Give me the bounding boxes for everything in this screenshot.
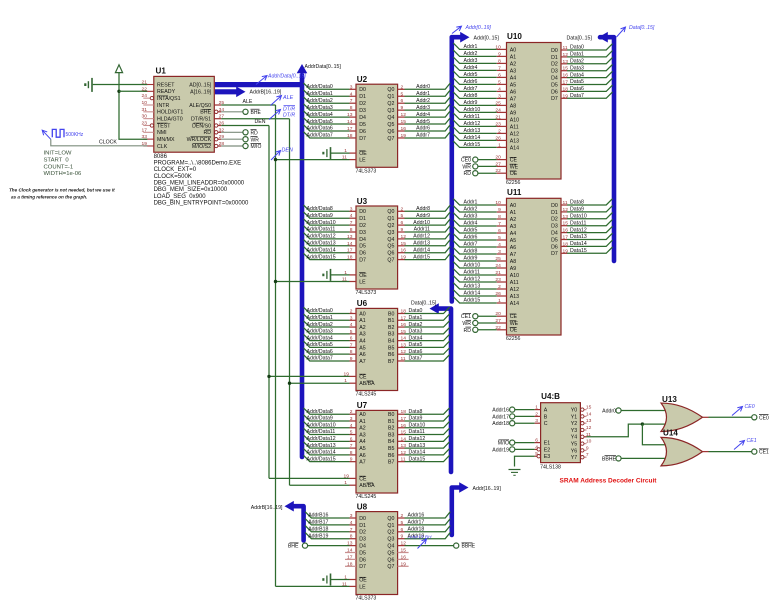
svg-text:3: 3	[350, 84, 353, 90]
svg-text:7: 7	[350, 342, 353, 348]
terminal Addr17 at U4.B	[510, 414, 515, 419]
svg-text:15: 15	[401, 119, 407, 125]
terminal WR at U11.WE	[473, 320, 478, 325]
svg-text:12: 12	[401, 234, 407, 240]
latch U8 74LS373 body	[356, 512, 398, 595]
svg-text:CLOCK=500K: CLOCK=500K	[154, 174, 192, 180]
wire RD to U11.OE	[478, 329, 497, 331]
svg-text:A11: A11	[510, 280, 519, 286]
svg-text:D1: D1	[359, 523, 366, 529]
svg-text:Addr3: Addr3	[416, 105, 430, 111]
svg-text:8: 8	[498, 214, 501, 220]
pin U1.WR/LOCK right	[218, 138, 222, 140]
pin U1.RD right	[218, 131, 222, 133]
transceiver U6 74LS245 body	[356, 308, 398, 390]
svg-text:Q6: Q6	[387, 129, 394, 135]
svg-text:30: 30	[142, 114, 148, 120]
svg-text:Addr/Data1: Addr/Data1	[307, 91, 333, 97]
svg-text:Addr/Data2: Addr/Data2	[307, 98, 333, 104]
svg-text:14: 14	[347, 548, 353, 554]
svg-text:Q5: Q5	[387, 550, 394, 556]
svg-text:5: 5	[350, 329, 353, 335]
svg-text:A1: A1	[359, 318, 366, 324]
svg-text:RD: RD	[251, 131, 259, 137]
wire WR to U10.WE	[478, 165, 497, 167]
svg-text:Addr15: Addr15	[413, 254, 430, 260]
svg-text:17: 17	[347, 126, 353, 132]
wire Addr10 to U10.A9	[453, 106, 497, 112]
junction DEN-U6.CE	[267, 375, 270, 378]
svg-text:5: 5	[498, 235, 501, 241]
svg-text:8: 8	[350, 227, 353, 233]
svg-text:Addr/Data11: Addr/Data11	[307, 227, 336, 233]
bus arrow Data[0..15] mid	[430, 303, 439, 314]
svg-text:AddrB18: AddrB18	[308, 527, 328, 533]
wire ground to U4.E3	[515, 456, 535, 466]
svg-text:D7: D7	[359, 258, 366, 264]
svg-text:74LS138: 74LS138	[540, 465, 561, 471]
svg-text:START 0: START 0	[44, 158, 70, 164]
svg-text:Data12: Data12	[570, 227, 587, 233]
wire U8.Q1 to bus Addr17	[398, 524, 405, 526]
svg-text:2: 2	[350, 409, 353, 415]
wire U13 output to CE0	[703, 416, 709, 418]
svg-text:13: 13	[401, 342, 407, 348]
svg-text:12: 12	[563, 207, 569, 213]
wire BHE to U8.D4	[308, 545, 350, 547]
svg-text:WE: WE	[510, 164, 519, 170]
svg-text:D6: D6	[359, 129, 366, 135]
svg-text:NMI: NMI	[157, 130, 167, 136]
svg-text:B: B	[544, 414, 548, 420]
terminal CE1 at U11.CE	[473, 314, 478, 319]
svg-text:LOAD_SEG 0x900: LOAD_SEG 0x900	[154, 194, 207, 200]
svg-text:Addr1: Addr1	[464, 200, 478, 206]
svg-text:11: 11	[563, 200, 568, 206]
wire U11.D1 to bus Data9	[561, 211, 567, 213]
svg-text:U4:B: U4:B	[541, 392, 560, 401]
svg-text:A2: A2	[359, 325, 366, 331]
wire AddrB17 to U8.D1	[305, 519, 349, 525]
svg-text:D4: D4	[359, 237, 366, 243]
svg-text:D0: D0	[359, 209, 366, 215]
svg-text:22: 22	[495, 168, 501, 174]
svg-text:SRAM Address Decoder Circuit: SRAM Address Decoder Circuit	[560, 478, 658, 485]
svg-text:B7: B7	[388, 460, 395, 466]
svg-text:17: 17	[401, 416, 407, 422]
svg-text:16: 16	[401, 554, 407, 560]
svg-text:3: 3	[498, 249, 501, 255]
svg-text:Y0: Y0	[571, 408, 578, 414]
wire Addr/Data6 to U6.A6	[304, 348, 350, 354]
svg-text:6: 6	[401, 98, 404, 104]
svg-text:2: 2	[401, 84, 404, 90]
terminal RD at U10.OE	[473, 171, 478, 176]
svg-text:6: 6	[350, 336, 353, 342]
wire Addr14 to U11.A13	[453, 290, 497, 296]
svg-text:Addr/Data7: Addr/Data7	[307, 133, 333, 139]
svg-text:D6: D6	[359, 557, 366, 563]
wire Addr/Data11 to U7.A3	[304, 428, 350, 434]
svg-text:AddrB19: AddrB19	[308, 533, 328, 539]
wire U10.D5 to bus Data5	[561, 84, 567, 86]
svg-text:Data6: Data6	[409, 349, 423, 355]
wire U3.Q7 to bus Addr15	[398, 259, 405, 261]
svg-text:D3: D3	[551, 224, 558, 230]
svg-text:Addr13: Addr13	[464, 128, 481, 134]
svg-text:74LS373: 74LS373	[356, 290, 377, 296]
svg-text:16: 16	[401, 248, 407, 254]
svg-text:OE: OE	[359, 273, 367, 279]
svg-text:TEST: TEST	[157, 123, 171, 129]
bus arrow AddrData top	[297, 64, 308, 73]
svg-text:13: 13	[347, 234, 353, 240]
wire Addr11 to U11.A10	[453, 269, 497, 275]
svg-text:A3: A3	[359, 432, 366, 438]
svg-text:A5: A5	[359, 345, 366, 351]
svg-text:AddrB[16..19]: AddrB[16..19]	[250, 89, 282, 95]
pin U1.HOLD/GT1 (31) left	[143, 111, 154, 113]
svg-text:D0: D0	[551, 48, 558, 54]
wire Addr/Data0 to U6.A0	[304, 307, 350, 313]
junction VCC-READY	[117, 90, 120, 93]
svg-text:Data7: Data7	[409, 356, 423, 362]
ground at U3.OE	[330, 269, 332, 281]
svg-text:Addr6: Addr6	[464, 235, 478, 241]
svg-text:RD: RD	[204, 130, 212, 136]
svg-text:4: 4	[498, 86, 501, 92]
wire U11.D6 to bus Data14	[561, 245, 567, 247]
svg-text:Addr15: Addr15	[464, 298, 481, 304]
svg-text:5: 5	[498, 79, 501, 85]
wire Addr5 to U10.A4	[453, 71, 497, 77]
svg-text:DBG_BIN_ENTRYPOINT=0x00000: DBG_BIN_ENTRYPOINT=0x00000	[154, 200, 249, 206]
svg-text:Data1: Data1	[409, 315, 423, 321]
svg-text:Data0: Data0	[409, 308, 423, 314]
svg-text:WR: WR	[462, 164, 471, 170]
svg-text:D3: D3	[359, 108, 366, 114]
svg-text:4: 4	[350, 213, 353, 219]
svg-text:A0: A0	[359, 412, 366, 418]
svg-text:RD: RD	[464, 328, 472, 334]
svg-text:B2: B2	[388, 325, 395, 331]
wire Addr/Data4 to U2.D4	[304, 111, 350, 117]
svg-text:D6: D6	[359, 251, 366, 257]
svg-text:U2: U2	[357, 75, 368, 84]
svg-text:Addr10: Addr10	[413, 220, 430, 226]
pin U8.D7 unconnected	[345, 565, 356, 567]
svg-text:10: 10	[495, 44, 501, 50]
wire U14 output to CE1	[703, 451, 709, 453]
wire Addr/Data1 to U2.D1	[304, 90, 350, 96]
svg-text:Data14: Data14	[409, 450, 426, 456]
svg-text:C: C	[544, 421, 548, 427]
wire U10.D7 to bus Data7	[561, 97, 567, 99]
svg-text:Q3: Q3	[387, 108, 394, 114]
svg-text:A7: A7	[510, 96, 517, 102]
svg-text:13: 13	[586, 418, 592, 424]
wire Addr/Data0 to U2.D0	[304, 83, 350, 89]
svg-text:23: 23	[142, 120, 148, 126]
terminal BHE	[243, 109, 248, 114]
svg-text:16: 16	[401, 423, 407, 429]
svg-text:8: 8	[498, 58, 501, 64]
svg-text:15: 15	[401, 241, 407, 247]
svg-text:AB/BA: AB/BA	[359, 483, 375, 489]
wire Addr11 to U10.A10	[453, 113, 497, 119]
wire U10.D0 to bus Data0	[561, 49, 567, 51]
svg-text:Y3: Y3	[571, 428, 578, 434]
wire Addr/Data7 to U2.D7	[304, 132, 350, 138]
svg-text:Addr14: Addr14	[464, 291, 481, 297]
svg-text:12: 12	[401, 112, 407, 118]
svg-text:13: 13	[563, 214, 569, 220]
svg-text:Addr[0..15]: Addr[0..15]	[474, 36, 500, 42]
bus AddrB[16..19] into U8	[291, 506, 304, 540]
svg-text:A9: A9	[510, 110, 517, 116]
svg-text:11: 11	[401, 457, 406, 463]
svg-text:B7: B7	[388, 359, 395, 365]
wire DEN vertical	[268, 126, 270, 479]
svg-text:27: 27	[495, 318, 501, 324]
terminal WR at U10.WE	[473, 164, 478, 169]
svg-text:Data3: Data3	[570, 65, 584, 71]
terminal WR	[243, 137, 248, 142]
svg-text:Addr/Data15: Addr/Data15	[307, 254, 336, 260]
svg-text:AD[0..15]: AD[0..15]	[189, 83, 211, 89]
wire U11.D4 to bus Data12	[561, 232, 567, 234]
pin U8.Q6 unconnected	[398, 558, 409, 560]
svg-text:6: 6	[498, 228, 501, 234]
wire Addr/Data3 to U2.D3	[304, 104, 350, 110]
wire U8.Q4 to BBHE terminal	[398, 545, 405, 547]
svg-text:D1: D1	[551, 210, 558, 216]
svg-text:9: 9	[498, 51, 501, 57]
svg-text:9: 9	[401, 534, 404, 540]
svg-text:17: 17	[347, 554, 353, 560]
wire M/IO to terminal	[221, 145, 243, 147]
svg-text:Addr7: Addr7	[464, 86, 478, 92]
svg-text:17: 17	[401, 315, 407, 321]
svg-text:D7: D7	[551, 96, 558, 102]
svg-text:74LS373: 74LS373	[356, 168, 377, 174]
svg-text:Data15: Data15	[409, 456, 426, 462]
sram U11 62256 body	[507, 198, 562, 335]
svg-text:18: 18	[563, 241, 569, 247]
svg-text:7: 7	[586, 452, 589, 458]
wire DEN to U7.CE	[269, 477, 350, 479]
svg-text:Addr[0..19]: Addr[0..19]	[465, 25, 492, 31]
pin U1.ALE/QS0 right	[214, 104, 221, 106]
wire U3.Q3 to bus Addr11	[398, 231, 405, 233]
svg-text:A9: A9	[510, 266, 517, 272]
svg-text:Addr/Data10: Addr/Data10	[307, 220, 336, 226]
svg-text:D1: D1	[551, 55, 558, 61]
svg-text:4: 4	[498, 242, 501, 248]
svg-text:Addr15: Addr15	[464, 142, 481, 148]
svg-text:74LS373: 74LS373	[356, 596, 377, 600]
bus arrow AddrB[16..19] lower	[285, 501, 294, 512]
svg-text:D7: D7	[359, 136, 366, 142]
wire U2.Q3 to bus Addr3	[398, 109, 405, 111]
wire Addr12 to U11.A11	[453, 276, 497, 282]
svg-text:Q7: Q7	[387, 564, 394, 570]
svg-text:Addr1: Addr1	[416, 91, 430, 97]
svg-text:Addr7: Addr7	[416, 133, 430, 139]
svg-text:12: 12	[401, 349, 407, 355]
svg-text:CE: CE	[510, 314, 518, 320]
svg-text:18: 18	[401, 309, 407, 315]
svg-text:Addr18: Addr18	[492, 421, 509, 427]
wire VCC to MN/MX	[119, 73, 147, 140]
svg-text:12: 12	[563, 52, 569, 58]
svg-text:62256: 62256	[506, 336, 521, 342]
svg-text:Q1: Q1	[387, 94, 394, 100]
svg-text:A6: A6	[359, 352, 366, 358]
svg-text:A2: A2	[359, 426, 366, 432]
svg-text:Addr11: Addr11	[464, 270, 480, 276]
wire Addr/Data12 to U7.A4	[304, 435, 350, 441]
svg-text:3: 3	[350, 315, 353, 321]
wire U6.B7 to bus Data7	[398, 360, 405, 362]
svg-text:M/IO: M/IO	[251, 144, 262, 150]
bus AddrData[0..15] vertical	[300, 75, 305, 457]
svg-text:Addr/Data3: Addr/Data3	[307, 329, 333, 335]
svg-text:D0: D0	[359, 516, 366, 522]
bus Data[0..15] right vertical	[600, 37, 614, 261]
svg-text:Addr3: Addr3	[464, 214, 478, 220]
svg-text:16: 16	[401, 322, 407, 328]
svg-text:D6: D6	[551, 244, 558, 250]
svg-text:Addr17: Addr17	[492, 414, 509, 420]
terminal Addr0 input	[616, 408, 621, 413]
wire U3.Q5 to bus Addr13	[398, 245, 405, 247]
svg-text:9: 9	[350, 457, 353, 463]
svg-text:CE1: CE1	[461, 314, 471, 320]
terminal CE0	[752, 415, 757, 420]
wire U7.B6 to bus Data14	[398, 454, 405, 456]
wire Addr/Data2 to U2.D2	[304, 97, 350, 103]
wire U6.B5 to bus Data5	[398, 346, 405, 348]
svg-text:1: 1	[535, 405, 538, 411]
svg-text:17: 17	[563, 235, 569, 241]
svg-text:8: 8	[350, 534, 353, 540]
bus Data[0..15] lower segment for U6/U7	[437, 309, 451, 472]
wire U3.Q2 to bus Addr10	[398, 224, 405, 226]
decoder U4:B 74LS138 body	[541, 403, 581, 463]
svg-text:D3: D3	[551, 69, 558, 75]
wire U2.Q1 to bus Addr1	[398, 95, 405, 97]
svg-text:Addr9: Addr9	[464, 100, 478, 106]
wire Addr/Data2 to U6.A2	[304, 321, 350, 327]
wire WR to terminal	[221, 138, 243, 140]
svg-text:13: 13	[401, 443, 407, 449]
svg-text:OE: OE	[510, 328, 518, 334]
svg-text:D2: D2	[359, 223, 366, 229]
svg-text:ALE: ALE	[243, 99, 253, 105]
svg-text:D2: D2	[359, 101, 366, 107]
wire Addr5 to U11.A4	[453, 227, 497, 233]
svg-text:13: 13	[563, 59, 569, 65]
svg-text:DEN: DEN	[282, 148, 293, 154]
pin U1.DT/R/S1 right	[214, 118, 221, 120]
svg-text:A3: A3	[359, 332, 366, 338]
wire Addr2 to U11.A1	[453, 206, 497, 212]
svg-text:Addr9: Addr9	[416, 213, 430, 219]
svg-text:13: 13	[347, 112, 353, 118]
svg-text:Q2: Q2	[387, 101, 394, 107]
svg-text:CE0: CE0	[759, 415, 769, 421]
svg-text:Addr2: Addr2	[464, 51, 478, 57]
svg-text:Addr/Data8: Addr/Data8	[307, 409, 333, 415]
svg-text:14: 14	[401, 436, 407, 442]
svg-text:The Clock generator is not nee: The Clock generator is not needed, but w…	[9, 187, 115, 192]
wire U8.Q0 to bus Addr16	[398, 517, 405, 519]
wire U3.Q4 to bus Addr12	[398, 238, 405, 240]
svg-text:AddrB17: AddrB17	[308, 520, 328, 526]
svg-text:Data2: Data2	[570, 59, 584, 65]
svg-text:A8: A8	[510, 103, 517, 109]
wire Addr/Data14 to U7.A6	[304, 449, 350, 455]
wire Addr2 to U10.A1	[453, 50, 497, 56]
svg-text:1: 1	[344, 270, 347, 276]
wire U2.Q2 to bus Addr2	[398, 102, 405, 104]
svg-text:A4: A4	[359, 439, 366, 445]
wire Addr18 to U4.C	[515, 422, 535, 424]
pin U4.Y5 (10)	[584, 443, 586, 445]
svg-text:9: 9	[586, 445, 589, 451]
svg-text:Addr6: Addr6	[464, 79, 478, 85]
wire Addr/Data9 to U3.D1	[304, 212, 350, 218]
svg-text:62256: 62256	[506, 180, 521, 186]
svg-text:B6: B6	[388, 352, 395, 358]
svg-text:HOLD/GT1: HOLD/GT1	[157, 110, 183, 116]
svg-text:2: 2	[401, 513, 404, 519]
wire AddrB16 to U8.D0	[305, 512, 349, 518]
svg-text:18: 18	[563, 86, 569, 92]
pin U1.DEN/S0 right	[218, 125, 222, 127]
svg-text:Q0: Q0	[387, 209, 394, 215]
wire Y4 to gates node	[587, 424, 643, 437]
svg-text:Data3: Data3	[409, 329, 423, 335]
svg-text:1: 1	[498, 298, 501, 304]
svg-text:OE: OE	[510, 171, 518, 177]
wire Addr16 to U4.A	[515, 409, 535, 411]
svg-text:19: 19	[563, 248, 569, 254]
svg-text:A5: A5	[510, 82, 517, 88]
wire Addr/Data7 to U6.A7	[304, 355, 350, 361]
wire node to U13 input	[642, 423, 666, 425]
clock generator symbol 500KHz	[42, 130, 51, 139]
terminal CE1	[752, 449, 757, 454]
svg-text:18: 18	[347, 133, 353, 139]
pin U4.Y4 (11)	[584, 436, 586, 438]
wire READY	[119, 90, 147, 92]
svg-text:D0: D0	[359, 87, 366, 93]
svg-text:Q0: Q0	[387, 87, 394, 93]
terminal BBHE input	[616, 456, 621, 461]
svg-text:7: 7	[350, 220, 353, 226]
svg-text:6: 6	[350, 436, 353, 442]
wire Addr6 to U10.A5	[453, 78, 497, 84]
svg-text:Addr/Data10: Addr/Data10	[307, 422, 336, 428]
svg-text:A6: A6	[510, 245, 517, 251]
svg-text:19: 19	[344, 473, 350, 479]
svg-text:Addr9: Addr9	[464, 256, 478, 262]
svg-text:Data0: Data0	[570, 45, 584, 51]
svg-text:Q0: Q0	[387, 516, 394, 522]
svg-text:B4: B4	[388, 439, 395, 445]
